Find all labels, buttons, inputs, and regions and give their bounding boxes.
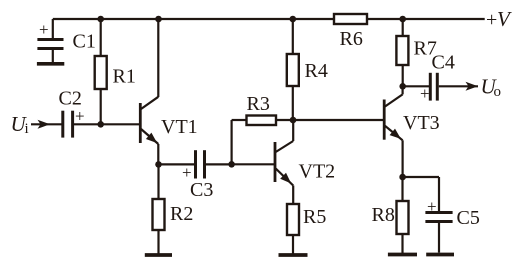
svg-text:V: V [497,7,512,31]
ground (R8) [388,253,417,257]
resistor R7 [396,19,436,86]
wire top supply rail [53,18,485,20]
svg-text:R1: R1 [113,66,136,88]
ground (R5) [279,253,308,257]
svg-text:R2: R2 [170,203,193,225]
node C2-R1-base [97,121,104,128]
capacitor C1 [37,19,95,62]
resistor R6 [334,14,367,50]
svg-text:R3: R3 [247,93,270,115]
output Uo [439,75,501,101]
svg-text:VT1: VT1 [161,116,198,138]
capacitor C4 [403,52,455,104]
resistor R8 [372,177,409,254]
node VT1 emitter [155,161,162,168]
node C3-R3-VT2 base [228,161,235,168]
capacitor C5 [403,177,480,253]
svg-text:R8: R8 [372,204,395,226]
svg-text:C4: C4 [432,52,455,74]
svg-text:C2: C2 [59,88,82,110]
node rail-VT1 collector [155,16,162,23]
transistor VT2 [232,120,336,204]
node rail-R1 [97,16,104,23]
svg-text:o: o [494,84,502,100]
transistor VT3 [384,86,439,177]
ground (C1) [37,62,64,66]
svg-text:R4: R4 [305,60,328,82]
node rail-R7 [399,16,406,23]
node VT3 emitter [399,174,406,181]
svg-text:R5: R5 [303,206,326,228]
svg-text:C3: C3 [190,179,213,201]
svg-text:R6: R6 [340,28,363,50]
node R7-C4-VT3 collector [399,83,406,90]
svg-text:+: + [39,20,49,39]
ground (R2) [145,253,172,257]
svg-text:C1: C1 [73,31,96,53]
svg-text:i: i [25,121,29,137]
resistor R1 [95,19,136,124]
resistor R5 [287,204,326,254]
svg-text:C5: C5 [457,207,480,229]
svg-text:VT3: VT3 [403,112,440,134]
resistor R4 [287,19,328,120]
transistor VT1 [101,19,198,164]
resistor R2 [153,164,194,253]
input Ui [11,112,63,137]
ground (C5) [426,253,454,257]
svg-text:+: + [486,9,497,31]
svg-text:+: + [427,197,437,216]
capacitor C3 [159,150,232,201]
node R3-R4-VT2 collector [290,117,297,124]
wire R4 node to VT3 base [293,119,384,121]
capacitor C2 [59,88,101,138]
svg-text:VT2: VT2 [299,161,336,183]
power +V [486,7,512,31]
svg-text:+: + [420,84,430,103]
node rail-R4/R6 [290,16,297,23]
resistor R3 [232,93,293,164]
